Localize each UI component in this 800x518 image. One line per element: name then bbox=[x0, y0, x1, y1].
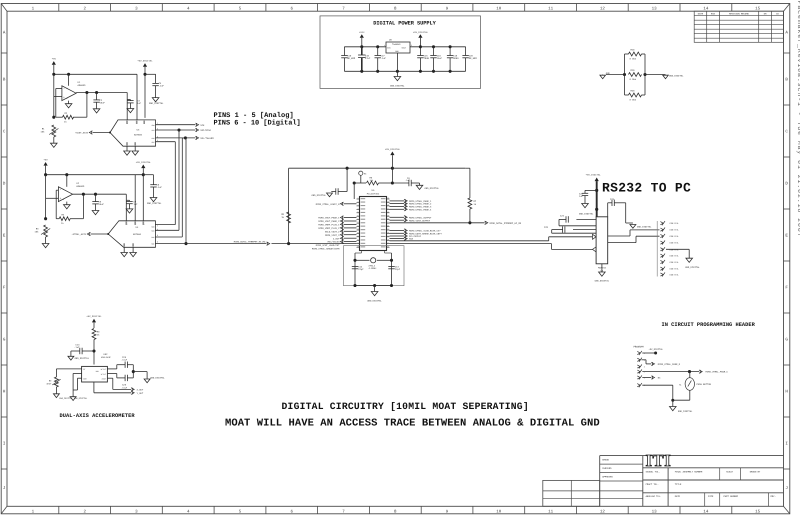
svg-text:3: 3 bbox=[357, 205, 358, 207]
svg-text:.01uF: .01uF bbox=[121, 359, 128, 362]
svg-text:PROGRAM: PROGRAM bbox=[634, 346, 645, 349]
capacitor C25 charge pump2 bbox=[544, 226, 596, 233]
svg-text:4: 4 bbox=[63, 188, 64, 191]
svg-text:CON R/A: CON R/A bbox=[670, 255, 679, 258]
svg-text:GND_DIGITAL: GND_DIGITAL bbox=[312, 194, 327, 197]
svg-text:RE_KER: RE_KER bbox=[469, 57, 478, 60]
svg-text:.1uF: .1uF bbox=[157, 186, 163, 189]
svg-text:0E0T: 0E0T bbox=[46, 383, 52, 386]
terminal NC bbox=[651, 376, 661, 380]
svg-text:10: 10 bbox=[357, 229, 359, 231]
svg-text:DATE: DATE bbox=[698, 13, 704, 16]
svg-text:DRAWN BY: DRAWN BY bbox=[750, 470, 761, 473]
svg-text:REV.: REV. bbox=[771, 495, 776, 498]
svg-text:MOAT WILL HAVE AN ACCESS TRACE: MOAT WILL HAVE AN ACCESS TRACE BETWEEN A… bbox=[225, 418, 600, 430]
svg-text:+5V_DIGITAL: +5V_DIGITAL bbox=[137, 60, 153, 63]
potentiometer R9 accel bbox=[46, 377, 60, 394]
svg-text:27: 27 bbox=[387, 242, 389, 244]
svg-text:10: 10 bbox=[496, 509, 502, 514]
wire MCU RX to RS232 bbox=[390, 244, 593, 250]
svg-text:GND_DIGITAL: GND_DIGITAL bbox=[390, 85, 405, 88]
ground GND analog side bbox=[600, 72, 625, 79]
wire feedback vertical 2 bbox=[82, 194, 84, 219]
svg-text:GND_DIGITAL: GND_DIGITAL bbox=[595, 280, 610, 283]
wire MCLR to pin bbox=[353, 183, 355, 199]
analog-digital converter U4 AD7686 bbox=[108, 221, 155, 248]
node moat left bbox=[623, 54, 626, 95]
svg-text:SCK: SCK bbox=[200, 124, 205, 127]
svg-text:CON R/A: CON R/A bbox=[670, 268, 679, 271]
svg-text:+5V_DIGITAL: +5V_DIGITAL bbox=[586, 174, 602, 177]
node accel filter join bbox=[132, 370, 147, 379]
svg-text:GND_DIGITAL: GND_DIGITAL bbox=[367, 300, 382, 303]
svg-text:GND_DIGITAL: GND_DIGITAL bbox=[149, 102, 164, 105]
capacitor C22 bbox=[579, 190, 597, 203]
wire SDO out bbox=[156, 124, 196, 126]
capacitor C23 top bbox=[608, 198, 626, 217]
svg-text:ADXL203E: ADXL203E bbox=[101, 356, 111, 359]
svg-text:.1uF: .1uF bbox=[74, 346, 80, 349]
wire header pin6 gnd bbox=[642, 385, 674, 402]
svg-text:8: 8 bbox=[357, 222, 358, 224]
resistor R2 feedback 1 bbox=[56, 112, 87, 124]
svg-text:AD7686: AD7686 bbox=[134, 134, 143, 137]
note PINS 6 - 10 [Digital] bbox=[214, 118, 301, 127]
svg-text:GND_DIGITAL: GND_DIGITAL bbox=[75, 357, 90, 360]
svg-text:FRACT TOL.: FRACT TOL. bbox=[646, 483, 659, 486]
ground ADC2 pin gnd B bbox=[130, 247, 137, 256]
ground ADC1 pin gnd A bbox=[124, 146, 131, 155]
capacitor C26 XFILT bbox=[121, 356, 133, 372]
svg-text:30: 30 bbox=[387, 232, 389, 234]
connector J1 DB9 pins bbox=[660, 221, 679, 277]
svg-text:2: 2 bbox=[67, 97, 68, 100]
svg-text:14: 14 bbox=[703, 6, 709, 11]
capacitor C16 electrolytic bbox=[358, 47, 371, 72]
terminals MCU right group B bbox=[390, 216, 433, 223]
svg-text:10uF: 10uF bbox=[99, 203, 105, 206]
revision record table bbox=[694, 11, 783, 42]
svg-text:3: 3 bbox=[411, 44, 412, 47]
capacitor C6 opamp2 output bbox=[92, 194, 104, 210]
capacitor C9 MCLR bbox=[392, 177, 419, 186]
rs232 transceiver U6 MAX232 bbox=[596, 217, 608, 273]
svg-text:10k: 10k bbox=[41, 131, 46, 134]
svg-text:+XTRAL_AXIS: +XTRAL_AXIS bbox=[72, 233, 87, 236]
svg-text:22pF: 22pF bbox=[358, 268, 364, 271]
svg-text:35: 35 bbox=[387, 215, 389, 217]
wire SDI rail continues bbox=[272, 242, 357, 245]
terminal SDI/MISO bbox=[195, 128, 211, 132]
svg-text:29: 29 bbox=[387, 235, 389, 237]
svg-text:CHECKED: CHECKED bbox=[602, 467, 612, 470]
ground ADC1 pin gnd B bbox=[132, 146, 139, 155]
svg-text:GND_DIGITAL: GND_DIGITAL bbox=[425, 187, 440, 190]
svg-text:MCRO_UTRAL_PAGE_4: MCRO_UTRAL_PAGE_4 bbox=[409, 208, 432, 211]
pin numbers ADC1 bbox=[126, 121, 158, 146]
ground C8 GND_DIGITAL bbox=[147, 198, 162, 206]
svg-text:MCRO_DGTAL_RTREPEF_HI_RG: MCRO_DGTAL_RTREPEF_HI_RG bbox=[234, 240, 266, 243]
ground opamp1 supply bbox=[65, 101, 72, 108]
svg-text:SDL/TALKER: SDL/TALKER bbox=[200, 137, 214, 140]
resistor R19 0 Ohm bbox=[629, 69, 642, 81]
wire +5V rail 1 bbox=[52, 73, 137, 76]
resistor R18 0 Ohm bbox=[625, 49, 646, 61]
ground C3 bbox=[127, 109, 134, 113]
crystal enclosure box bbox=[344, 246, 405, 286]
svg-text:ECN: ECN bbox=[711, 13, 716, 16]
note DIGITAL POWER SUPPLY bbox=[373, 20, 436, 26]
ground pot R3 bbox=[42, 244, 49, 248]
svg-text:TEUB: TEUB bbox=[424, 57, 430, 60]
company logo ITI bbox=[646, 451, 672, 470]
svg-text:MCRO_UTRAL_PAGE_C: MCRO_UTRAL_PAGE_C bbox=[706, 371, 729, 374]
terminal SDL/TALKER bbox=[195, 136, 214, 140]
title block grid bbox=[543, 456, 784, 507]
svg-text:COM: COM bbox=[83, 378, 86, 381]
svg-text:CON R/A: CON R/A bbox=[670, 242, 679, 245]
svg-text:6: 6 bbox=[644, 384, 645, 387]
svg-text:PUSH BUTTON: PUSH BUTTON bbox=[697, 383, 712, 386]
svg-text:DATE: DATE bbox=[675, 495, 681, 498]
wire DB9 pin5 gnd bbox=[666, 249, 689, 258]
connector J2 programming header pins bbox=[637, 351, 645, 387]
wire button top bbox=[689, 372, 691, 378]
svg-text:CON R/A: CON R/A bbox=[670, 274, 679, 277]
svg-text:TA48M05: TA48M05 bbox=[392, 43, 401, 46]
title block labels bbox=[602, 459, 775, 499]
ground C9 GND_DIGITAL bbox=[416, 183, 439, 190]
svg-text:R18: R18 bbox=[631, 49, 636, 52]
terminal MCRO_UTRAL_PAGE_D bbox=[651, 362, 681, 366]
svg-text:GND_DIGITAL: GND_DIGITAL bbox=[579, 213, 594, 216]
terminal XTRAL_AXIS input bbox=[72, 232, 110, 236]
accelerometer U7 ADXL203 bbox=[82, 353, 112, 382]
svg-text:PIC18F452: PIC18F452 bbox=[367, 193, 380, 196]
svg-text:Pacemaker_Rev10a.sch-1 - Tue M: Pacemaker_Rev10a.sch-1 - Tue May 01 21:0… bbox=[796, 1, 800, 238]
svg-text:CON R/A: CON R/A bbox=[670, 248, 679, 251]
wire ADC2 SDO to bus1 bbox=[155, 224, 175, 226]
svg-text:2: 2 bbox=[357, 201, 358, 203]
svg-text:MONO: MONO bbox=[453, 57, 459, 60]
svg-text:DUAL-AXIS ACCELEROMETER: DUAL-AXIS ACCELEROMETER bbox=[60, 413, 136, 419]
wire MCU TX to RS232 bbox=[390, 237, 593, 241]
wire opamp2 supply stub bbox=[66, 175, 68, 187]
ground C2 bbox=[93, 109, 100, 113]
terminals MCU right group A bbox=[390, 199, 433, 211]
terminal MCRO_DGTAL_CONVERT bbox=[234, 240, 270, 245]
svg-text:SDI: SDI bbox=[151, 243, 154, 246]
svg-text:TITLE: TITLE bbox=[675, 483, 682, 486]
wire CNV out bbox=[156, 136, 196, 139]
note RS232 TO PC bbox=[602, 181, 691, 196]
svg-text:RS232 TO PC: RS232 TO PC bbox=[602, 181, 691, 196]
resistor R8 accel bbox=[92, 329, 100, 365]
wire feedback vertical 1 bbox=[86, 93, 88, 118]
wire MCU interrupt line bbox=[390, 221, 485, 224]
power +5V_DIGITAL MCU bbox=[385, 148, 401, 183]
svg-text:R19: R19 bbox=[631, 69, 636, 72]
svg-text:MCRO_UTRAL_PAGE_D: MCRO_UTRAL_PAGE_D bbox=[658, 363, 681, 366]
wire ADC2 SDI rail bbox=[155, 243, 266, 245]
wire PSU bottom rail bbox=[344, 70, 465, 73]
svg-text:YFILT: YFILT bbox=[101, 373, 107, 376]
svg-text:GND_DIGITAL: GND_DIGITAL bbox=[637, 226, 652, 229]
terminal MCRO_XTRAL_LEAD_N bbox=[316, 202, 357, 206]
power +5V_DIGITAL ADC2 bbox=[136, 161, 152, 221]
gnd MAX232 bbox=[595, 264, 610, 283]
terminal MCRO_XTRAL label3 bbox=[312, 247, 340, 250]
analog-digital converter U3 AD7686 bbox=[110, 120, 156, 146]
capacitor C24 charge pump1 bbox=[559, 215, 596, 226]
svg-text:10k: 10k bbox=[35, 231, 40, 234]
capacitor C27 YFILT bbox=[107, 372, 133, 390]
svg-text:13: 13 bbox=[652, 6, 658, 11]
push button SW1 bbox=[679, 378, 712, 391]
power +5V_DIGITAL out bbox=[413, 31, 429, 47]
svg-text:1uF: 1uF bbox=[134, 203, 139, 206]
svg-text:DRAWN: DRAWN bbox=[602, 459, 609, 462]
microcontroller U5 PIC18F452 bbox=[360, 189, 387, 251]
ground accel filter GND_DIGITAL bbox=[144, 377, 165, 383]
svg-text:15: 15 bbox=[357, 246, 359, 248]
svg-text:SDI/MISO: SDI/MISO bbox=[200, 129, 211, 132]
crystal Y1 bbox=[353, 258, 393, 270]
wire MAX232 R1IN bbox=[608, 236, 660, 242]
wire MCU top rail bbox=[289, 167, 466, 170]
resistor R20 0 Ohm bbox=[625, 90, 646, 102]
svg-text:0 Ohm: 0 Ohm bbox=[630, 99, 637, 102]
capacitor C2 opamp1 output bbox=[93, 93, 105, 109]
svg-text:GND_DIGITAL: GND_DIGITAL bbox=[147, 202, 162, 205]
svg-text:CON R/A: CON R/A bbox=[670, 235, 679, 238]
svg-text:4: 4 bbox=[67, 87, 68, 90]
ground GND_DIGITAL moat side bbox=[645, 74, 684, 78]
terminal MCRO_DGTAL_INTERRUPT bbox=[485, 221, 522, 225]
terminals MCU right group C bbox=[390, 229, 443, 241]
svg-text:4.0MHz: 4.0MHz bbox=[369, 267, 378, 270]
svg-text:+: + bbox=[63, 96, 65, 100]
svg-text:C23: C23 bbox=[610, 198, 615, 201]
svg-text:10uF: 10uF bbox=[100, 102, 106, 105]
svg-text:C25: C25 bbox=[544, 226, 549, 229]
svg-text:13: 13 bbox=[652, 509, 658, 514]
svg-text:MCRO_XTRAL_SEAGE/CNTR: MCRO_XTRAL_SEAGE/CNTR bbox=[312, 247, 340, 250]
wire opamp1 plus stub bbox=[52, 74, 62, 118]
svg-text:SDA: SDA bbox=[409, 238, 414, 241]
wire SPI bus 1 bbox=[174, 142, 176, 225]
wire accel XFILT bbox=[107, 365, 125, 369]
wire PSU top rail left bbox=[344, 45, 386, 48]
svg-text:GND_DIGITAL: GND_DIGITAL bbox=[669, 74, 684, 77]
power +5V_DIGITAL accel bbox=[86, 315, 102, 328]
svg-text:15: 15 bbox=[755, 6, 761, 11]
svg-text:+VCC: +VCC bbox=[359, 31, 365, 34]
svg-text:C24: C24 bbox=[560, 215, 565, 218]
ground pot R1 bbox=[51, 143, 58, 147]
svg-text:40: 40 bbox=[387, 198, 389, 200]
note DUAL-AXIS ACCELEROMETER bbox=[60, 413, 136, 419]
ground C14 GND_DIGITAL bbox=[68, 356, 90, 360]
pin numbers ADC2 bbox=[123, 222, 158, 247]
capacitor C5 bypass MCU bbox=[331, 168, 347, 195]
terminal SCK bbox=[195, 123, 205, 127]
svg-text:1: 1 bbox=[357, 198, 358, 200]
svg-text:26: 26 bbox=[387, 246, 389, 248]
ground C4 GND_DIGITAL bbox=[149, 98, 164, 105]
wire accel XOUT bbox=[107, 378, 131, 389]
svg-text:REVISION RECORD: REVISION RECORD bbox=[729, 13, 749, 16]
wire header pin4 MCLR bbox=[642, 370, 699, 373]
ground header GND_DIGITAL bbox=[670, 400, 694, 413]
power +5V_DIGITAL RS232 bbox=[586, 174, 602, 217]
capacitor C7 ADC2 bbox=[126, 194, 138, 209]
capacitor C18 bbox=[430, 47, 442, 72]
wire ADC2 SCK to bus2 bbox=[155, 229, 179, 231]
driver triangle T2 bbox=[593, 247, 597, 252]
terminal Y_OUT bbox=[131, 391, 144, 395]
svg-text:12: 12 bbox=[600, 6, 606, 11]
wire ADC1 AIN vertical bbox=[126, 100, 128, 120]
wire +5V rail 2 bbox=[44, 173, 145, 176]
svg-text:+5V_DIGITAL: +5V_DIGITAL bbox=[413, 31, 429, 34]
ground crystal GND_DIGITAL bbox=[367, 286, 382, 303]
sheet filename vertical text bbox=[796, 1, 800, 238]
svg-text:4: 4 bbox=[357, 208, 358, 210]
capacitor C15 bbox=[417, 47, 429, 72]
svg-text:VDD: VDD bbox=[96, 370, 99, 373]
wire accel ST pin bbox=[56, 369, 81, 377]
svg-text:10: 10 bbox=[496, 6, 502, 11]
svg-text:33: 33 bbox=[387, 222, 389, 224]
wire MAX232 T1OUT bbox=[608, 230, 660, 236]
svg-text:12: 12 bbox=[600, 509, 606, 514]
svg-text:.1uF: .1uF bbox=[405, 179, 411, 182]
capacitor C4 ADC1 bypass bbox=[145, 74, 165, 97]
resistor R5 pullup-left bbox=[281, 212, 290, 223]
terminals MCU left signal group bbox=[318, 216, 356, 244]
ground pot R9 bbox=[53, 394, 59, 398]
svg-text:PINS 6 - 10 [Digital]: PINS 6 - 10 [Digital] bbox=[214, 118, 301, 127]
note DIGITAL CIRCUITRY moat bbox=[282, 401, 529, 412]
power +5V opamp2 bbox=[44, 159, 49, 175]
svg-text:14: 14 bbox=[703, 509, 709, 514]
resistor R7 pull-up bbox=[465, 168, 477, 223]
test point MCLR bbox=[359, 171, 368, 183]
svg-text:11: 11 bbox=[548, 6, 554, 11]
resistor R4 feedback 2 bbox=[56, 213, 83, 225]
svg-text:CON R/A: CON R/A bbox=[670, 222, 679, 225]
capacitor C12 crystal bbox=[352, 265, 364, 271]
capacitor C3 ADC1 bbox=[127, 93, 141, 109]
wire header pin2 PGD bbox=[642, 360, 652, 364]
svg-text:SDI: SDI bbox=[151, 141, 154, 144]
svg-text:.1uF: .1uF bbox=[381, 57, 387, 60]
svg-text:1: 1 bbox=[644, 352, 645, 355]
svg-text:MCRO_DGTAL_RTREREF_HI_RG: MCRO_DGTAL_RTREREF_HI_RG bbox=[490, 222, 522, 225]
svg-text:+5V: +5V bbox=[44, 159, 49, 162]
svg-text:ITI: ITI bbox=[646, 451, 672, 470]
svg-text:0 Ohm: 0 Ohm bbox=[630, 78, 637, 81]
capacitor C19 bbox=[447, 47, 459, 72]
terminal XCNT_AXIS input bbox=[75, 131, 111, 135]
wire opamp2 plus stub bbox=[44, 175, 58, 221]
svg-text:11: 11 bbox=[548, 509, 554, 514]
note IN CIRCUIT PROGRAMMING HEADER bbox=[662, 322, 756, 328]
svg-text:1uF: 1uF bbox=[579, 195, 584, 198]
wire ADC2 CNV to bus3 bbox=[155, 236, 182, 238]
svg-text:+5V_DIGITAL: +5V_DIGITAL bbox=[86, 315, 102, 318]
svg-text:13: 13 bbox=[357, 239, 359, 241]
svg-text:12: 12 bbox=[357, 235, 359, 237]
svg-text:6: 6 bbox=[357, 215, 358, 217]
svg-text:+5V: +5V bbox=[52, 58, 57, 61]
note PINS 1 - 5 [Analog] bbox=[214, 111, 294, 120]
wire header pin1 +5V bbox=[642, 352, 657, 355]
resistor R6 MCLR pullup bbox=[367, 177, 394, 185]
driver triangle T1 bbox=[593, 234, 597, 239]
svg-text:CNV: CNV bbox=[151, 137, 154, 140]
svg-text:AD8605: AD8605 bbox=[76, 185, 85, 188]
svg-text:CNV: CNV bbox=[151, 236, 154, 239]
svg-text:AD8605: AD8605 bbox=[78, 84, 87, 87]
power +5V opamp1 bbox=[52, 58, 57, 75]
voltage regulator U8 TA48M05 bbox=[384, 39, 412, 54]
wire crystal left leg bbox=[355, 253, 362, 286]
wire opamp2 minus loop bbox=[56, 190, 58, 219]
svg-text:+5V_DIGITAL: +5V_DIGITAL bbox=[385, 148, 401, 151]
svg-text:0 Ohm: 0 Ohm bbox=[630, 58, 637, 61]
svg-text:5: 5 bbox=[357, 211, 358, 213]
ground accel mid bbox=[59, 397, 88, 401]
svg-text:-: - bbox=[63, 87, 65, 91]
wire SPI bus 4 bbox=[184, 138, 187, 245]
wire MCLR row bbox=[353, 181, 366, 184]
svg-text:3: 3 bbox=[644, 366, 645, 369]
svg-text:GND_DIGITAL: GND_DIGITAL bbox=[678, 410, 693, 413]
connector J2 label bbox=[634, 346, 664, 352]
wire crystal bottom rail bbox=[353, 284, 393, 287]
wire crystal right leg bbox=[385, 253, 392, 286]
potentiometer R1 bbox=[41, 125, 59, 143]
capacitor C14 accel bypass bbox=[71, 344, 94, 357]
capacitor C17 bbox=[375, 47, 387, 72]
capacitor C8 ADC2 bypass bbox=[143, 175, 162, 198]
wire SCK out bbox=[156, 128, 196, 131]
svg-text:11: 11 bbox=[357, 232, 359, 234]
svg-text:22pF: 22pF bbox=[395, 268, 401, 271]
svg-text:AD7686: AD7686 bbox=[133, 233, 142, 236]
ground DB9 GND_DIGITAL bbox=[685, 258, 700, 269]
node moat right bbox=[643, 54, 646, 95]
svg-text:37: 37 bbox=[387, 208, 389, 210]
svg-text:1: 1 bbox=[384, 44, 385, 47]
svg-text:APPROVED: APPROVED bbox=[602, 476, 613, 479]
svg-text:PART NUMBER: PART NUMBER bbox=[724, 495, 739, 498]
microcontroller left pins bbox=[357, 198, 360, 248]
ground C5 GND_DIGITAL bbox=[312, 193, 333, 197]
svg-text:ANGULAR TOL.: ANGULAR TOL. bbox=[646, 495, 662, 498]
svg-text:+XCNT_AXIS: +XCNT_AXIS bbox=[75, 132, 89, 135]
svg-text:GND: GND bbox=[606, 72, 611, 75]
wire accel YOUT bottom pin bbox=[94, 382, 131, 393]
svg-text:32: 32 bbox=[387, 225, 389, 227]
wire PSU top rail right bbox=[410, 45, 466, 48]
svg-text:IN CIRCUIT PROGRAMMING HEADER: IN CIRCUIT PROGRAMMING HEADER bbox=[662, 322, 756, 328]
wire opamp1 output bbox=[76, 91, 127, 94]
svg-text:GND_DIGITAL: GND_DIGITAL bbox=[150, 377, 165, 380]
svg-text:-: - bbox=[60, 188, 62, 192]
